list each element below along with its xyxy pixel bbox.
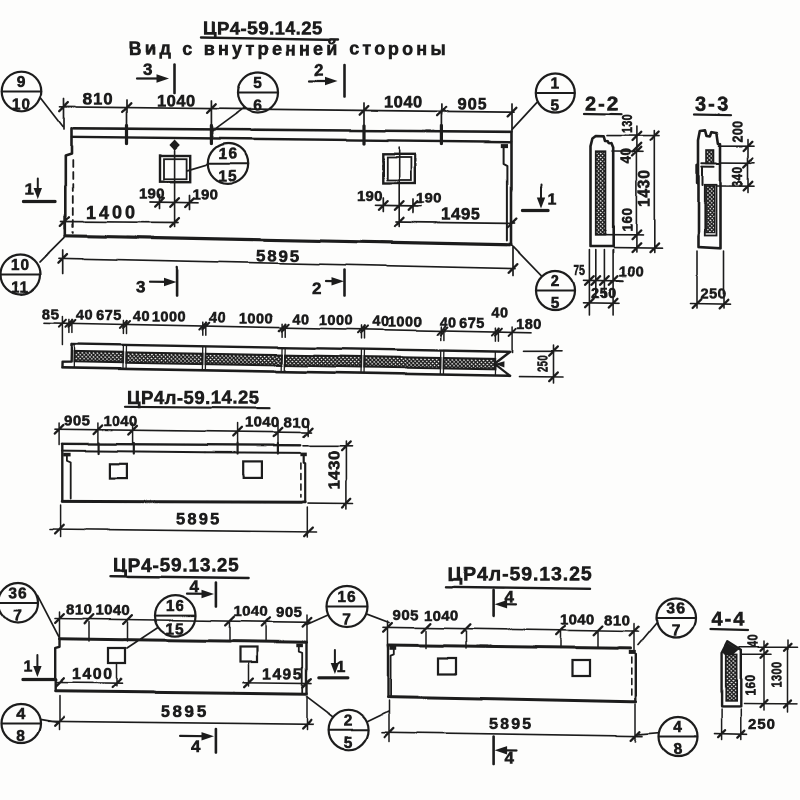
svg-text:16: 16	[218, 146, 237, 163]
svg-text:40: 40	[491, 306, 508, 322]
callout circle 16/15	[208, 144, 248, 184]
callout circle 9/10	[2, 72, 42, 112]
svg-text:2: 2	[551, 273, 561, 290]
svg-text:5895: 5895	[176, 511, 222, 529]
callout circle 1/5	[536, 74, 575, 113]
svg-text:15: 15	[218, 169, 237, 186]
svg-text:250: 250	[591, 286, 617, 302]
svg-text:1: 1	[548, 192, 557, 209]
svg-text:810: 810	[83, 91, 114, 109]
svg-text:3: 3	[143, 60, 152, 79]
callout 2/5 middle	[329, 710, 369, 750]
svg-text:190: 190	[416, 190, 442, 207]
panel CP4-59.13.25 outline	[60, 639, 307, 642]
svg-text:810: 810	[284, 415, 311, 432]
opening 1	[160, 156, 190, 182]
section 2-2 hatch core	[596, 152, 606, 235]
svg-text:5: 5	[344, 735, 354, 752]
callout 16/15	[155, 595, 196, 636]
callout 16/7 middle	[327, 586, 368, 627]
svg-text:ЦР4-59.13.25: ЦР4-59.13.25	[113, 556, 240, 577]
section 3-3 dims	[719, 145, 754, 147]
svg-text:1040: 1040	[234, 603, 269, 620]
callout circle 10/11	[1, 255, 41, 295]
svg-text:11: 11	[11, 279, 29, 296]
svg-text:2: 2	[312, 279, 321, 298]
svg-text:675: 675	[96, 308, 122, 324]
opening 2	[383, 154, 415, 183]
svg-text:1000: 1000	[239, 311, 273, 327]
section 2-2 outline	[591, 136, 614, 246]
openings	[108, 648, 125, 663]
svg-text:1430: 1430	[327, 450, 344, 490]
dim 1430 right	[303, 445, 353, 447]
right edge with notch	[300, 453, 306, 457]
svg-text:1040: 1040	[157, 93, 196, 111]
svg-text:340: 340	[730, 166, 747, 187]
svg-text:3-3: 3-3	[696, 94, 731, 116]
dim 190/190 right	[376, 204, 422, 207]
svg-text:ЦР4л-59.13.25: ЦР4л-59.13.25	[448, 564, 593, 586]
svg-text:1040: 1040	[384, 94, 423, 112]
right notch	[296, 644, 303, 647]
svg-text:40: 40	[618, 148, 635, 164]
svg-text:3: 3	[136, 278, 145, 297]
callout 4/8 left	[2, 704, 41, 743]
panel CP4L-59.14.25 outline	[62, 444, 300, 446]
svg-text:40: 40	[76, 308, 93, 324]
openings	[438, 658, 456, 674]
svg-text:ЦР4л-59.14.25: ЦР4л-59.14.25	[127, 387, 260, 408]
svg-text:905: 905	[393, 607, 420, 624]
svg-text:Вид с внутренней стороны: Вид с внутренней стороны	[129, 39, 449, 59]
svg-text:8: 8	[673, 741, 683, 758]
main panel CP4-59.14.25 outline	[74, 128, 512, 132]
svg-text:160: 160	[619, 208, 636, 232]
svg-text:40: 40	[439, 315, 456, 331]
svg-text:10: 10	[11, 257, 30, 274]
top dimension line 810/1040 .. 1040/905	[60, 107, 514, 112]
left notch	[64, 453, 71, 457]
svg-text:190: 190	[357, 188, 383, 205]
section 3-3 upper hatch	[707, 150, 715, 164]
svg-text:200: 200	[730, 121, 747, 143]
svg-text:1: 1	[25, 182, 34, 199]
svg-text:810: 810	[604, 613, 631, 630]
svg-text:16: 16	[337, 589, 356, 606]
svg-text:4-4: 4-4	[712, 609, 747, 631]
svg-text:2: 2	[314, 61, 323, 80]
svg-text:905: 905	[276, 604, 303, 621]
section 3-3 outline	[699, 130, 721, 249]
section 4-4 hatch core	[726, 654, 737, 701]
svg-text:6: 6	[253, 97, 263, 114]
svg-text:36: 36	[8, 586, 27, 603]
right edge notch	[501, 144, 508, 148]
svg-text:100: 100	[619, 265, 645, 281]
right edge with notch	[629, 650, 636, 654]
svg-text:75: 75	[574, 262, 585, 279]
svg-text:4: 4	[191, 737, 201, 756]
callout 36/7 right	[657, 599, 696, 638]
svg-text:40: 40	[209, 310, 226, 326]
svg-text:ЦР4-59.14.25: ЦР4-59.14.25	[203, 18, 323, 39]
left inner dashed line	[72, 160, 74, 233]
svg-text:36: 36	[666, 601, 685, 618]
svg-text:250: 250	[748, 716, 776, 733]
section 4-4 outline	[722, 642, 741, 707]
svg-text:5895: 5895	[489, 716, 533, 733]
svg-text:905: 905	[64, 413, 91, 430]
centerline opening 2	[398, 147, 400, 227]
svg-text:1400: 1400	[86, 203, 138, 223]
openings	[109, 464, 127, 478]
svg-text:1040: 1040	[245, 414, 280, 431]
anchor diamond node	[169, 140, 179, 151]
svg-text:1495: 1495	[262, 667, 304, 684]
callout 36/7 left	[0, 583, 38, 623]
svg-text:5895: 5895	[161, 702, 209, 721]
svg-text:160: 160	[743, 675, 759, 696]
svg-text:250: 250	[701, 287, 727, 303]
svg-text:190: 190	[139, 186, 165, 203]
svg-text:7: 7	[342, 612, 352, 629]
section 2-2 dims	[607, 135, 659, 137]
dim row 810/1040 1040/905	[55, 619, 311, 623]
svg-text:1000: 1000	[152, 309, 186, 325]
svg-text:1000: 1000	[319, 313, 353, 329]
svg-text:1: 1	[337, 659, 346, 676]
svg-text:40: 40	[133, 309, 150, 325]
svg-text:15: 15	[165, 621, 184, 638]
callout circle 2/5 right	[536, 271, 575, 310]
svg-text:85: 85	[42, 307, 59, 323]
svg-text:190: 190	[193, 187, 219, 204]
svg-text:1495: 1495	[441, 205, 481, 224]
svg-text:1040: 1040	[103, 413, 138, 430]
panel CP4L-59.13.25 outline	[388, 645, 631, 648]
svg-text:810: 810	[66, 602, 93, 619]
callout 4/8 right	[659, 717, 698, 756]
strip plan body	[62, 344, 510, 376]
svg-text:1: 1	[24, 659, 33, 676]
section 4-4 dims	[739, 646, 797, 648]
svg-text:1040: 1040	[560, 612, 595, 629]
section 3-3 lower hatch	[705, 185, 717, 236]
strip 250 dim	[523, 350, 562, 352]
svg-text:7: 7	[671, 623, 681, 640]
svg-text:5: 5	[550, 98, 560, 115]
svg-text:250: 250	[534, 355, 551, 372]
svg-text:9: 9	[17, 74, 27, 91]
svg-text:1040: 1040	[424, 608, 459, 625]
svg-text:5: 5	[253, 75, 263, 92]
svg-text:675: 675	[459, 316, 485, 332]
svg-text:1430: 1430	[635, 170, 654, 207]
strip plan dimension row	[44, 323, 531, 333]
callout circle 5/6	[238, 73, 278, 113]
section 3-3 ledge	[702, 162, 721, 164]
svg-text:1300: 1300	[770, 662, 786, 688]
dims 905/1040 1040/810	[55, 429, 311, 432]
svg-text:2-2: 2-2	[585, 93, 620, 115]
centerline opening 1	[174, 151, 176, 227]
svg-text:8: 8	[16, 728, 26, 745]
svg-text:5: 5	[551, 295, 561, 312]
svg-text:1040: 1040	[96, 602, 131, 619]
svg-text:40: 40	[292, 312, 309, 328]
dim row 905/1040 1040/810	[383, 627, 638, 631]
svg-text:2: 2	[344, 712, 354, 729]
svg-text:1: 1	[550, 76, 560, 93]
svg-text:1400: 1400	[72, 666, 114, 683]
svg-text:180: 180	[516, 317, 542, 333]
svg-text:10: 10	[12, 96, 31, 113]
svg-text:905: 905	[457, 96, 488, 114]
strip hatch bands	[74, 351, 123, 362]
left notch	[390, 646, 397, 649]
svg-text:130: 130	[619, 114, 636, 133]
svg-text:1000: 1000	[388, 314, 422, 330]
svg-text:40: 40	[746, 635, 762, 648]
svg-text:4: 4	[16, 706, 26, 723]
dim 190/190 left	[150, 201, 198, 204]
svg-text:7: 7	[13, 608, 23, 625]
svg-text:4: 4	[673, 719, 683, 736]
svg-text:16: 16	[165, 598, 184, 615]
